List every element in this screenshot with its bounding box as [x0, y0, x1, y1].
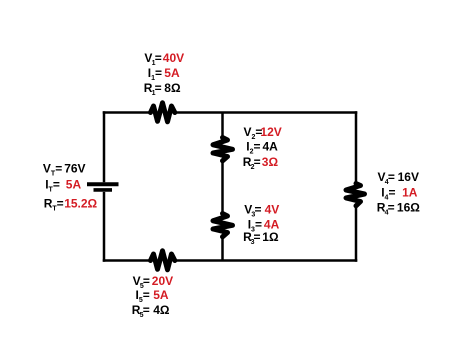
wire left-lower segment: [103, 192, 106, 262]
svg-text:12V: 12V: [260, 125, 281, 139]
svg-text:I5=: I5=: [136, 288, 150, 304]
svg-text:16Ω: 16Ω: [397, 200, 420, 214]
svg-text:8Ω: 8Ω: [164, 81, 181, 95]
svg-text:R5=: R5=: [132, 303, 150, 319]
svg-text:R1=: R1=: [144, 81, 162, 97]
svg-text:16V: 16V: [398, 170, 419, 184]
svg-text:15.2Ω: 15.2Ω: [64, 197, 97, 211]
wire bottom-right segment: [176, 259, 358, 262]
svg-text:R2=: R2=: [243, 155, 261, 171]
svg-text:40V: 40V: [163, 51, 184, 65]
svg-text:76V: 76V: [64, 162, 85, 176]
svg-text:V3=: V3=: [244, 203, 261, 219]
resistor R5: [151, 251, 175, 270]
svg-text:5A: 5A: [164, 66, 180, 80]
resistor R2: [213, 138, 233, 161]
wire middle branch lower: [221, 237, 224, 261]
wire right-upper segment: [355, 111, 358, 183]
svg-text:I4=: I4=: [381, 185, 395, 201]
svg-text:4A: 4A: [263, 140, 279, 154]
svg-text:RT=: RT=: [44, 197, 64, 213]
wire top-left segment: [103, 111, 151, 114]
svg-text:20V: 20V: [152, 274, 173, 288]
battery VT top plate: [87, 182, 119, 186]
wire right-lower segment: [355, 206, 358, 262]
wire bottom-left segment: [103, 259, 151, 262]
resistor R3: [213, 214, 233, 237]
svg-text:1A: 1A: [402, 185, 418, 199]
svg-text:5A: 5A: [153, 288, 169, 302]
svg-text:I2=: I2=: [246, 140, 260, 156]
wire left-upper segment: [103, 111, 106, 182]
svg-text:1Ω: 1Ω: [262, 230, 279, 244]
battery VT bottom plate: [94, 188, 113, 192]
wire top-right segment: [176, 111, 358, 114]
wire middle branch between R2 and R3: [221, 161, 224, 214]
svg-text:4V: 4V: [265, 203, 280, 217]
resistor R4: [346, 184, 365, 206]
wire middle branch upper: [221, 113, 224, 138]
svg-text:IT=: IT=: [45, 178, 60, 194]
svg-text:5A: 5A: [66, 178, 82, 192]
svg-text:V4=: V4=: [378, 170, 395, 186]
svg-text:I1=: I1=: [148, 66, 162, 82]
svg-text:3Ω: 3Ω: [262, 155, 279, 169]
svg-text:V1=: V1=: [144, 51, 161, 67]
resistor R1: [151, 103, 175, 122]
svg-text:R4=: R4=: [377, 200, 395, 216]
svg-text:VT=: VT=: [43, 162, 62, 178]
svg-text:4Ω: 4Ω: [153, 303, 170, 317]
